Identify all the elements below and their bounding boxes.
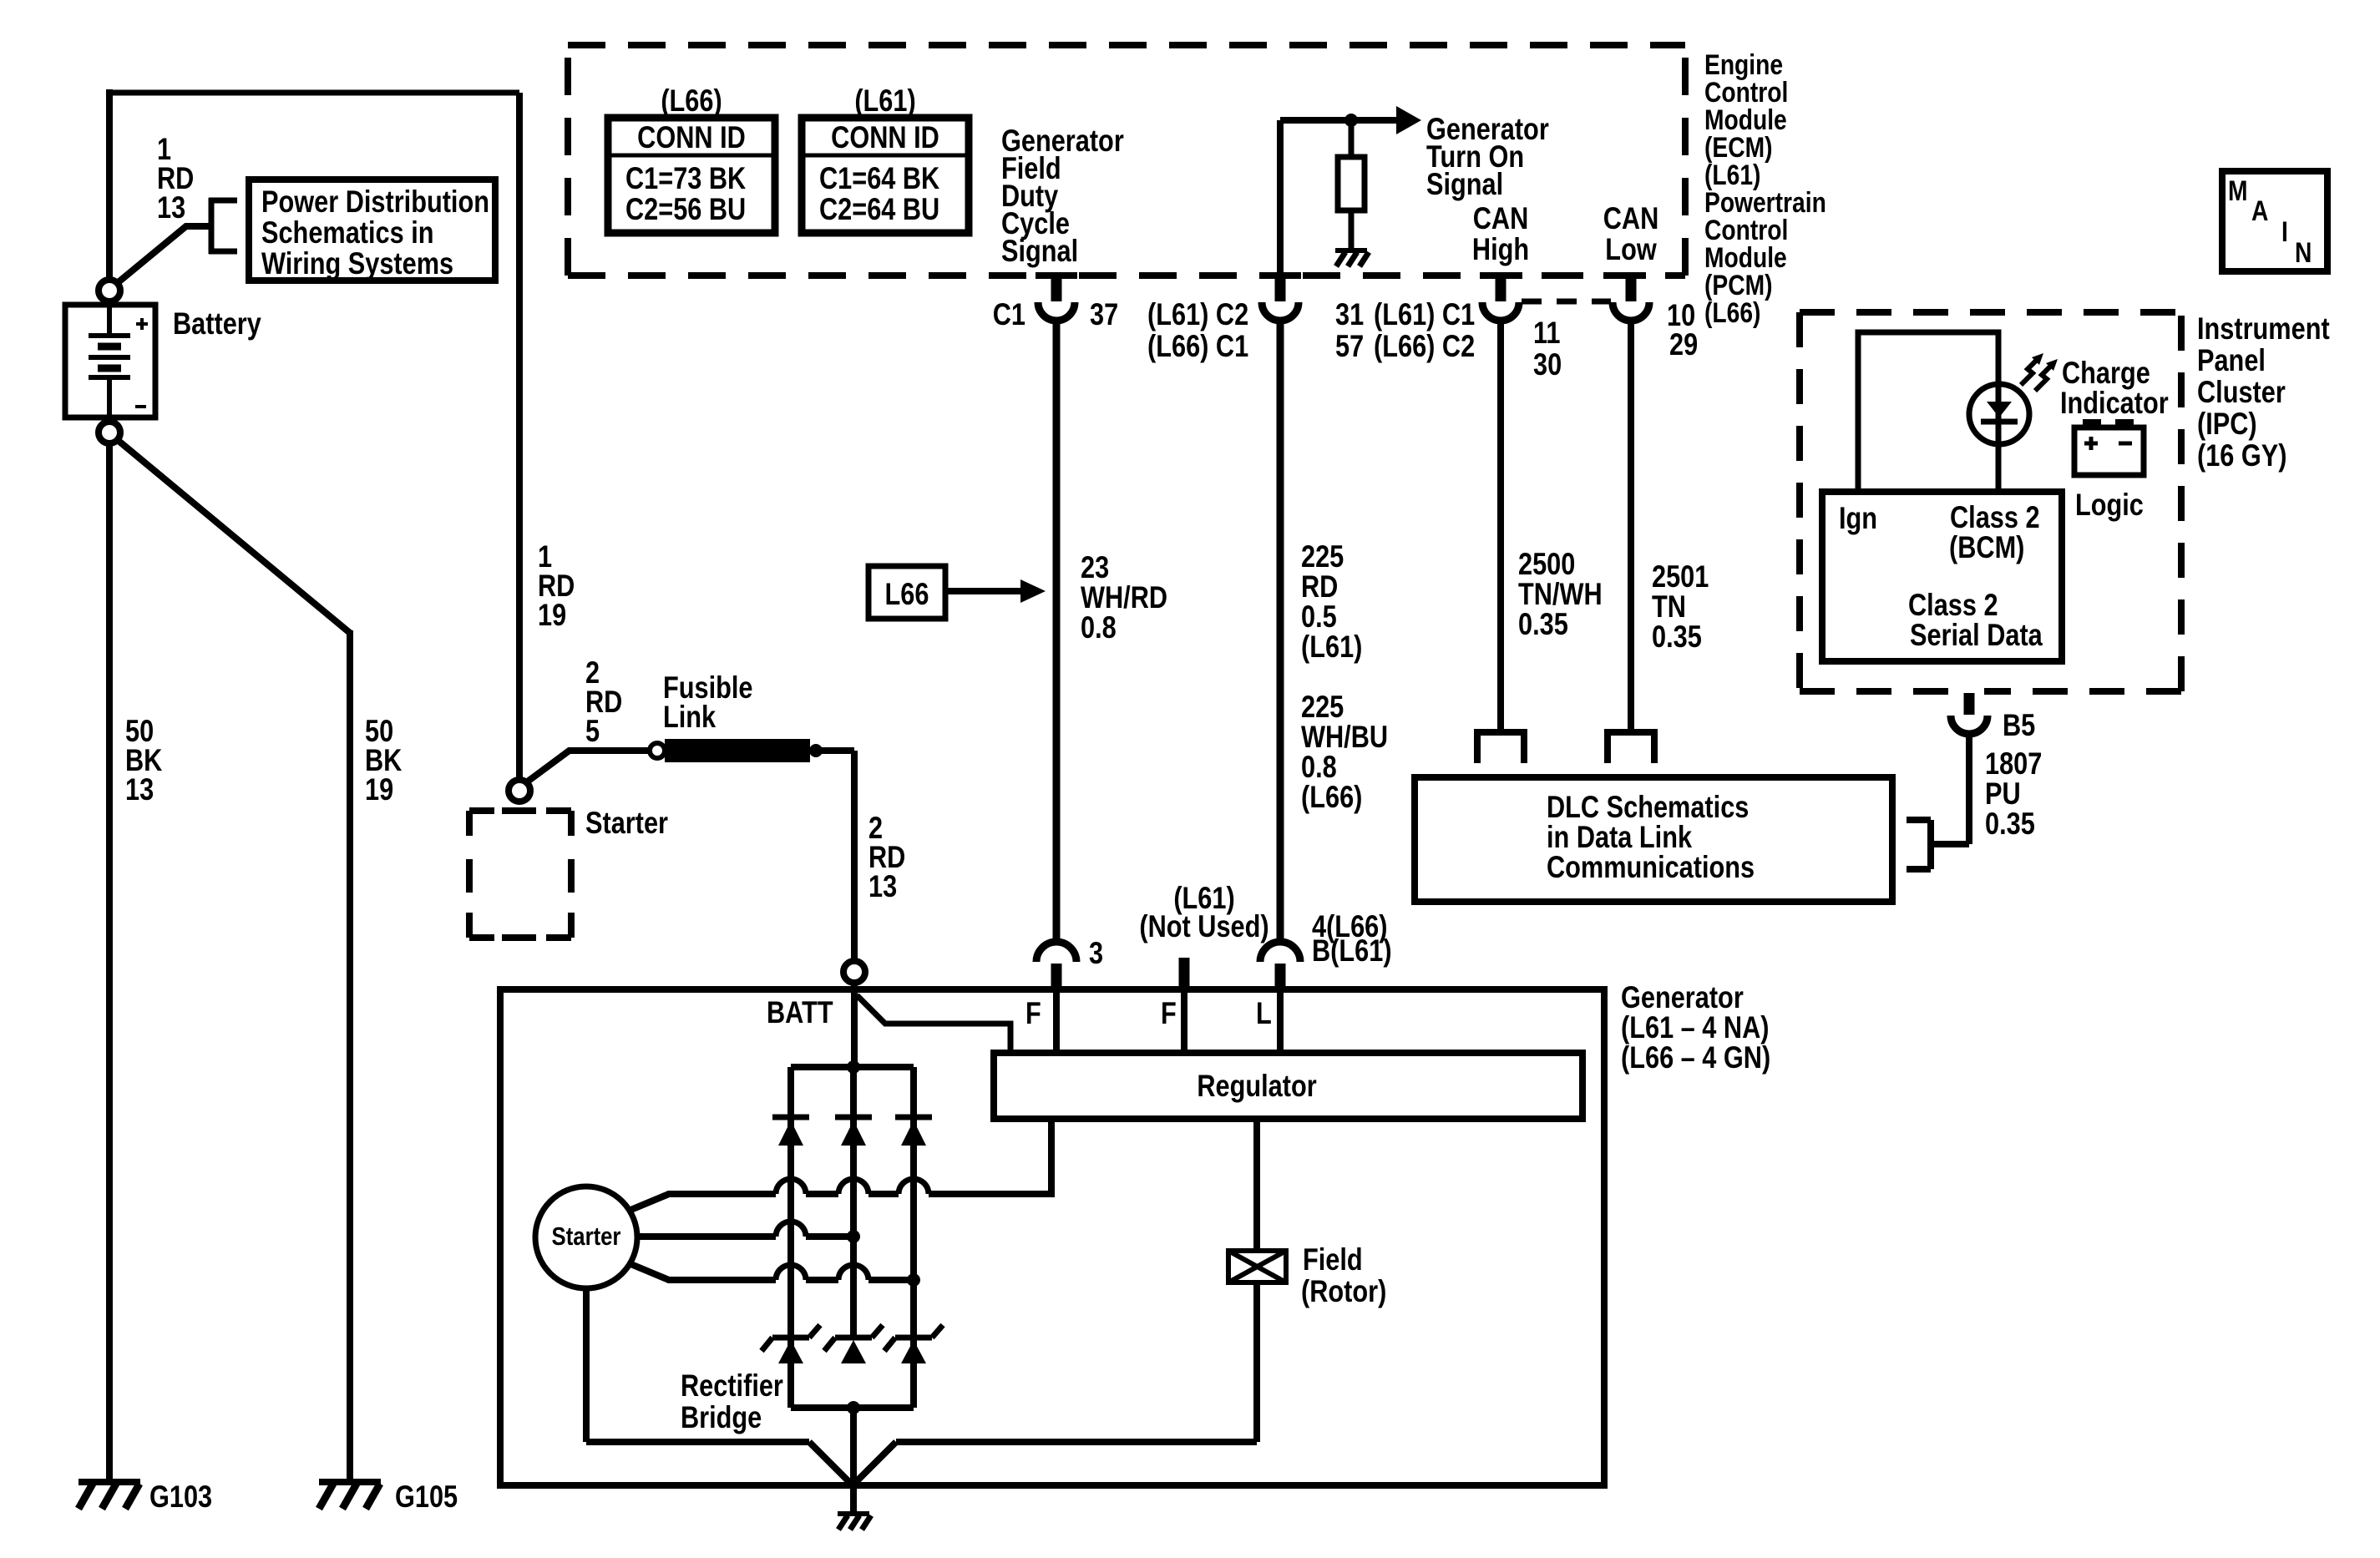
svg-text:Starter: Starter	[552, 1222, 621, 1252]
svg-text:(L66 – 4 GN): (L66 – 4 GN)	[1621, 1040, 1770, 1075]
svg-text:13: 13	[868, 869, 897, 903]
svg-text:G105: G105	[395, 1480, 458, 1514]
svg-text:CAN: CAN	[1603, 201, 1659, 235]
svg-text:(IPC): (IPC)	[2197, 407, 2257, 441]
svg-text:C1: C1	[993, 297, 1025, 331]
svg-text:Rectifier: Rectifier	[681, 1368, 783, 1403]
svg-text:29: 29	[1669, 327, 1698, 362]
svg-text:L66: L66	[885, 577, 929, 611]
svg-text:(L66) C1: (L66) C1	[1147, 329, 1248, 363]
svg-text:0.8: 0.8	[1081, 610, 1117, 645]
svg-text:Panel: Panel	[2197, 343, 2266, 377]
svg-text:Field: Field	[1303, 1242, 1363, 1277]
svg-text:(BCM): (BCM)	[1949, 530, 2024, 564]
svg-text:(L61): (L61)	[1301, 630, 1362, 664]
svg-text:M: M	[2228, 175, 2248, 207]
svg-text:0.35: 0.35	[1652, 620, 1702, 654]
svg-text:30: 30	[1533, 347, 1562, 382]
svg-text:19: 19	[538, 598, 566, 632]
svg-text:(Rotor): (Rotor)	[1301, 1274, 1386, 1308]
svg-text:37: 37	[1090, 297, 1118, 331]
svg-text:Serial Data: Serial Data	[1910, 618, 2043, 652]
svg-text:Low: Low	[1605, 232, 1657, 266]
svg-text:Ign: Ign	[1839, 501, 1877, 535]
svg-text:5: 5	[585, 714, 600, 748]
svg-text:B5: B5	[2003, 708, 2035, 742]
svg-text:(L61) C1: (L61) C1	[1374, 297, 1475, 331]
svg-text:57: 57	[1335, 329, 1364, 363]
svg-text:13: 13	[125, 772, 154, 807]
svg-text:C1=73 BK: C1=73 BK	[625, 161, 747, 195]
svg-text:Regulator: Regulator	[1197, 1069, 1316, 1103]
svg-text:CONN ID: CONN ID	[831, 120, 939, 154]
svg-text:I: I	[2281, 216, 2288, 248]
svg-text:Battery: Battery	[173, 306, 261, 341]
svg-text:High: High	[1472, 232, 1529, 266]
svg-text:(Not Used): (Not Used)	[1139, 909, 1268, 943]
svg-text:Instrument: Instrument	[2197, 311, 2330, 346]
svg-text:L: L	[1256, 996, 1272, 1030]
svg-text:11: 11	[1533, 316, 1560, 350]
svg-text:0.35: 0.35	[1518, 607, 1568, 641]
svg-text:(16 GY): (16 GY)	[2197, 438, 2287, 473]
svg-text:(L66): (L66)	[1301, 780, 1362, 814]
svg-text:Signal: Signal	[1001, 234, 1078, 268]
svg-text:N: N	[2295, 237, 2312, 269]
svg-text:C1=64 BK: C1=64 BK	[819, 161, 940, 195]
svg-text:Indicator: Indicator	[2060, 386, 2169, 420]
svg-text:Bridge: Bridge	[681, 1400, 762, 1434]
svg-text:(L61) C2: (L61) C2	[1147, 297, 1248, 331]
svg-text:Cluster: Cluster	[2197, 375, 2286, 409]
svg-text:BATT: BATT	[767, 995, 833, 1029]
svg-text:3: 3	[1089, 936, 1103, 970]
svg-text:F: F	[1161, 996, 1177, 1030]
svg-text:Signal: Signal	[1426, 167, 1503, 201]
svg-text:B(L61): B(L61)	[1312, 933, 1392, 968]
svg-text:CAN: CAN	[1473, 201, 1529, 235]
svg-text:G103: G103	[149, 1480, 212, 1514]
svg-text:F: F	[1025, 996, 1041, 1030]
svg-text:C2=64 BU: C2=64 BU	[819, 192, 939, 226]
svg-text:Power Distribution: Power Distribution	[261, 185, 489, 219]
svg-text:Starter: Starter	[585, 806, 668, 840]
svg-text:Logic: Logic	[2075, 488, 2144, 522]
svg-text:C2=56 BU: C2=56 BU	[625, 192, 746, 226]
svg-text:(L66): (L66)	[1704, 297, 1760, 329]
svg-text:Schematics in: Schematics in	[261, 215, 434, 250]
svg-text:Wiring Systems: Wiring Systems	[261, 246, 453, 281]
svg-text:(L66) C2: (L66) C2	[1374, 329, 1475, 363]
svg-text:A: A	[2251, 195, 2268, 227]
svg-text:0.35: 0.35	[1985, 807, 2035, 841]
svg-text:Communications: Communications	[1547, 850, 1755, 884]
svg-text:(L66): (L66)	[661, 83, 722, 118]
svg-text:Link: Link	[663, 700, 716, 734]
svg-text:13: 13	[157, 190, 185, 225]
svg-text:19: 19	[365, 772, 393, 807]
svg-text:31: 31	[1335, 297, 1364, 331]
svg-text:(L61): (L61)	[854, 83, 915, 118]
svg-text:CONN ID: CONN ID	[637, 120, 746, 154]
